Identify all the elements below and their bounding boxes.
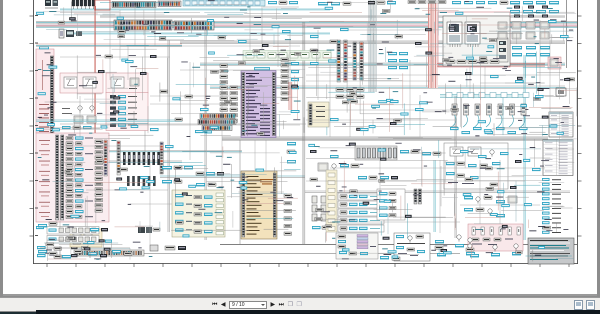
vertical x240 gray [239, 140, 241, 244]
component grid right-top [498, 22, 549, 39]
cluster x456 bottom [455, 235, 479, 258]
page navigation controls [212, 301, 302, 309]
panel C rows [110, 95, 137, 127]
wire segments cluster z5 [461, 45, 577, 136]
colorcol x117 [117, 141, 120, 175]
yellow panel parts [73, 232, 92, 244]
green strip panel [243, 51, 331, 61]
wire bus gray y16 [100, 16, 565, 17]
panel x394 bottom [394, 233, 430, 261]
right-top small box x557 [556, 88, 566, 96]
wire segments cluster z11 [342, 244, 574, 262]
wire segments cluster z6 [38, 139, 160, 233]
vertical gray x145 [144, 30, 146, 160]
labels strip x430 [408, 1, 446, 4]
wire segments cluster z9 [463, 137, 577, 232]
chips cluster x390 y55 [388, 52, 408, 69]
fuse row top [72, 0, 95, 9]
bottom toolbar [0, 297, 600, 311]
small display component x60 [59, 29, 82, 38]
chip stack right of pink panel [95, 140, 103, 212]
pink comp top right border [548, 57, 561, 69]
wire bus mixed y44 left [36, 44, 182, 47]
wire y245 section divider [220, 244, 577, 246]
vertical bus double x303 [303, 22, 305, 244]
vertical bus x455 [455, 96, 456, 238]
cream panel small x308 [308, 102, 329, 127]
connector strips x200 y114 [198, 114, 236, 131]
relay K3 [111, 77, 124, 88]
component cluster x320 y165 [318, 163, 359, 171]
wire bus gray y41 [180, 41, 565, 43]
wire segments cluster z10 [44, 236, 152, 261]
pink panel chip rows [66, 137, 93, 219]
wire segments cluster z8 [306, 138, 460, 243]
scatter right y195 [464, 196, 517, 217]
cream panel chip rows [175, 194, 213, 233]
wire segments cluster z3 [167, 47, 304, 137]
connector strip J1 top [112, 2, 156, 8]
chips between purple and x303 [287, 142, 296, 163]
red outline box top x95 [95, 0, 110, 10]
big pink panel lower-left [36, 133, 109, 222]
connector columns x338 cluster [337, 40, 363, 82]
key switch panel gray [443, 16, 510, 66]
wire bus gray y86 [210, 86, 565, 89]
component block top-left pair [45, 0, 58, 9]
switch panel bottom chips [446, 60, 499, 63]
bottom-left wires [40, 246, 130, 258]
ECU text rows [246, 73, 270, 136]
wire bus y190 [305, 191, 570, 192]
wire bus center y137 [222, 137, 548, 140]
wire mesh texture [36, 5, 560, 245]
horizontal connstrip bottom-left [78, 250, 144, 256]
tan block title blob [260, 179, 273, 185]
resistor strip row y147 [355, 146, 397, 160]
red bundle right of ECU [289, 82, 292, 110]
bottom center components row [150, 245, 186, 251]
wire bus teal top [60, 9, 330, 10]
injector teal wires [450, 115, 528, 134]
vertical bars row 2 [127, 176, 156, 186]
connector strip J2 top [158, 1, 181, 7]
component panel C pink [106, 93, 148, 131]
wire bus y176 teal [160, 176, 305, 178]
wire bus y160 [36, 161, 182, 162]
connector strip row2 B [174, 21, 214, 30]
pink surround key panel [438, 12, 510, 67]
label cluster top x270 [268, 1, 298, 4]
valve box right [377, 189, 405, 220]
vertical bus gray x170 [168, 40, 169, 232]
right-top cyan chips [512, 46, 550, 56]
view mode icons right [574, 300, 583, 310]
relay panel A pink outline [60, 73, 103, 93]
vertical bus gray x205 [205, 30, 206, 240]
note box gray [528, 238, 574, 264]
ECU pin column left [242, 73, 245, 136]
ECU purple block [241, 71, 276, 138]
chips x437 bottom [435, 240, 446, 256]
relay K2 [83, 77, 96, 88]
relay K1 [64, 77, 77, 88]
wire segments cluster z1 [307, 1, 577, 45]
pink panel right-bottom [468, 224, 523, 251]
inner section border right [566, 0, 568, 68]
drawing frame right border [577, 0, 579, 264]
bottom black bar [36, 310, 600, 314]
black bar left segment [0, 312, 36, 314]
vertical bus teal x525 [524, 55, 526, 240]
table A right [549, 112, 573, 137]
relay panel B pink outline [106, 73, 148, 93]
glow plug rail wires [440, 93, 529, 98]
cream panel center [172, 190, 225, 237]
drawing frame left border [33, 0, 35, 264]
cream panel white box column [216, 193, 224, 235]
component row strip 1 [47, 227, 99, 235]
key switch 1 [447, 22, 462, 47]
left margin chips [36, 128, 44, 229]
sensors below pink panel [466, 244, 521, 257]
frame tick marks bottom [47, 264, 569, 268]
tall panel top cyan chip [39, 46, 49, 49]
wire bus y150 [60, 151, 242, 152]
panel B parts [129, 78, 139, 89]
labels strip x450-520 [452, 1, 508, 4]
wire bus teal y120 [36, 120, 306, 124]
wire segments cluster z7 [170, 138, 302, 237]
red bus backing [428, 3, 438, 88]
scattered wire labels [96, 20, 569, 189]
cream strip x326 [326, 170, 337, 232]
chips x380 y265 below frame [380, 256, 400, 260]
chips stack left of ECU [220, 64, 238, 122]
conncol pair x414 [414, 189, 421, 204]
yellow panel bottom-left [70, 229, 102, 247]
colorcol x104 [104, 140, 107, 176]
injector row right [452, 104, 526, 115]
monitor tan block [241, 171, 277, 239]
key switch 2 [465, 22, 480, 47]
teal bundle x434 vertical [434, 160, 435, 232]
cluster x337 bottom [336, 233, 378, 259]
cyan terminal strip top [183, 0, 265, 6]
pink connector panel tall [36, 49, 54, 133]
sub panel in key panel [497, 38, 508, 62]
big pink panel text labels [39, 140, 50, 217]
cluster below relays [62, 106, 96, 129]
wire long y253 [75, 253, 460, 255]
tall panel inner text [39, 60, 49, 132]
table B right [543, 140, 573, 176]
tan block pin column right [273, 173, 276, 237]
ECU pin column right [272, 73, 275, 136]
drawing frame bottom border [34, 263, 578, 265]
pink panel pin column 2 [61, 135, 64, 220]
wire segments cluster z0 [36, 0, 303, 44]
pink panel pin column 1 [56, 135, 59, 220]
tan block pin column left [242, 173, 245, 237]
chips above cream panel [162, 166, 224, 186]
cyan chip grid top right [510, 1, 559, 18]
cluster below pink panel [37, 246, 78, 258]
tan block text rows [247, 176, 263, 235]
wire bus teal y33 [72, 33, 330, 34]
cluster x312 y194 [312, 196, 330, 229]
chip cluster x340 y90 [336, 88, 364, 98]
chips x284 y194 [284, 194, 292, 235]
ECU title chip [254, 67, 270, 70]
vertical bus gray x373 thick [369, 0, 377, 92]
frame tick labels [35, 15, 38, 236]
chips top x370 [368, 1, 396, 4]
wire label column right [542, 178, 561, 234]
tall panel pin column [50, 56, 53, 138]
component row strip 2 [47, 236, 99, 244]
wire segments cluster z2 [37, 46, 160, 136]
vertical bars row [123, 152, 160, 165]
pink panel components [472, 227, 520, 245]
valve rows block [338, 193, 384, 232]
red bundle turn right [437, 64, 545, 67]
vertical salmon x95 [95, 6, 96, 150]
chips row x360 y178 [358, 176, 398, 179]
vertical bus red x430 [429, 3, 436, 88]
cyan labels top x320 [318, 2, 351, 5]
wire bus gray y63 [200, 63, 565, 65]
bottom-left chip scatter [38, 222, 132, 258]
colorcol x160 [160, 142, 163, 174]
connector strip row2 A [114, 20, 172, 30]
dark comp pair x138 [138, 227, 160, 233]
chips right of resistor strip [400, 150, 441, 155]
page bottom shadow edge [3, 294, 597, 296]
chips stack right of ECU [281, 58, 299, 101]
frame tick marks vertical [30, 16, 582, 236]
wire segments cluster z4 [306, 46, 458, 136]
wire bus mixed y21 [36, 22, 577, 28]
pressure switch box right [444, 143, 508, 189]
